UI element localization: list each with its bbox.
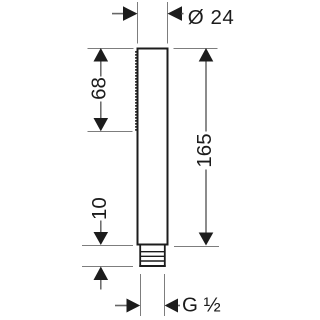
dim10 extension line top (82, 245, 133, 247)
spray face dots (135, 51, 137, 131)
dim68 line lower (100, 102, 102, 119)
dia24 extension line left (137, 2, 139, 44)
dim68 arrow down (94, 118, 109, 131)
dim165 arrow down (199, 233, 214, 246)
G half tail right stub (178, 305, 180, 307)
dim165 extension line top (174, 48, 218, 50)
dim68 arrow up (94, 48, 109, 62)
svg-text:165: 165 (193, 133, 216, 167)
G half arrow left (127, 299, 141, 313)
dim10 line above arrow (100, 221, 102, 233)
svg-text:10: 10 (88, 197, 111, 220)
dia24 tail left (112, 13, 125, 15)
G half extension line right (164, 274, 166, 316)
dim10 arrow up (94, 267, 109, 281)
thread line 1 (141, 251, 164, 253)
dim165 extension line bottom (174, 246, 219, 248)
dia24 extension line right (167, 2, 169, 44)
dim165 line upper (205, 62, 207, 132)
dim68 line upper (100, 62, 102, 77)
dim10 arrow down (94, 232, 109, 245)
dia24 arrow left (123, 6, 138, 21)
dim68 extension line bottom (88, 131, 133, 133)
dia24 tail right stub (182, 13, 184, 15)
G half arrow right (165, 299, 178, 313)
thread line 2 (141, 255, 164, 257)
dia24 arrow right (168, 6, 183, 21)
svg-text:68: 68 (87, 77, 110, 100)
thread line 3 (141, 260, 164, 262)
thread bottom edge (139, 265, 165, 267)
dim68 extension line top (88, 48, 134, 50)
dim165 line lower (205, 170, 207, 234)
G half tail left (115, 305, 128, 307)
thread left edge (139, 246, 141, 267)
dim165 arrow up (199, 48, 214, 62)
svg-text:G ½: G ½ (182, 294, 221, 317)
dim10 tail below arrow (100, 280, 102, 290)
thread right edge (164, 246, 166, 267)
shower body outline (138, 49, 168, 245)
svg-text:Ø 24: Ø 24 (188, 6, 234, 29)
dim10 extension line bottom (82, 266, 133, 268)
G half extension line left (140, 274, 142, 316)
